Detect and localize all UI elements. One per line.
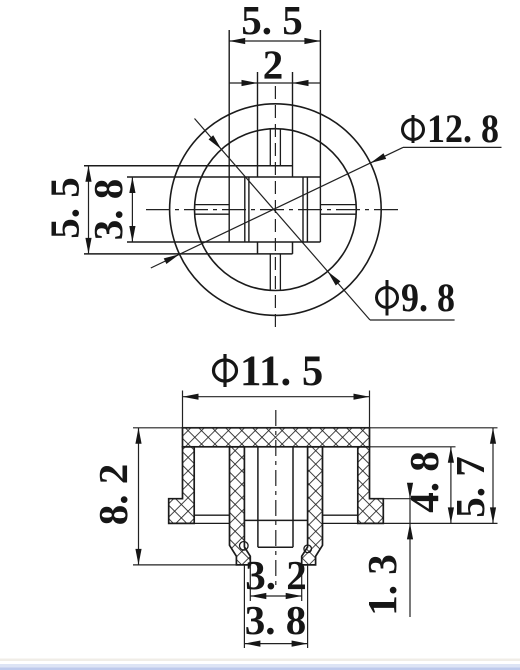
slab hatched [183, 428, 370, 447]
horizontal center line [146, 209, 401, 211]
svg-text:5. 5: 5. 5 [241, 0, 303, 43]
Φ11.5 extension right [369, 391, 371, 428]
cross boss: horizontal bar bottom edge + 3.8 extension [127, 241, 320, 243]
dim 1.3 line [409, 483, 411, 617]
vertical arm right edge / extension for 2 [292, 72, 294, 177]
slot ceiling cap [258, 546, 293, 548]
svg-text:8. 2: 8. 2 [90, 464, 136, 526]
Φ12.8 leader underline [403, 146, 502, 148]
svg-text:9. 8: 9. 8 [401, 276, 455, 320]
dimension 5.5 left line [88, 166, 90, 254]
svg-text:11. 5: 11. 5 [240, 348, 323, 395]
dimension 3.8 left line [131, 177, 133, 242]
svg-text:3. 8: 3. 8 [245, 597, 307, 643]
section center line [275, 410, 277, 585]
dim 5.7 line [492, 428, 494, 524]
inner hole edge 3.2 right [302, 177, 304, 242]
slab top line + 8.2 ext + 5.7 ext [133, 427, 498, 429]
svg-text:5. 5: 5. 5 [42, 177, 88, 239]
svg-text:3. 2: 3. 2 [245, 552, 307, 598]
text Φ11.5 [214, 354, 237, 387]
vertical arm bottom cap + 5.5 extension [84, 253, 293, 255]
svg-text:1. 3: 1. 3 [359, 554, 405, 616]
vertical center line [274, 86, 276, 333]
inner hole edge 3.2 left [248, 177, 250, 242]
lip fillet left [240, 542, 249, 551]
dim 8.2 line [138, 428, 140, 565]
skirt far bottom edge left [194, 514, 229, 516]
8.2 bottom extension + stem bottom [133, 564, 236, 566]
dimension 2 line [229, 82, 320, 84]
dim 3.8 line [244, 643, 307, 645]
vertical arm left edge / extension for 2 [257, 72, 259, 177]
right slot [320, 204, 356, 206]
slot wall right [292, 447, 294, 547]
svg-text:4. 8: 4. 8 [401, 451, 447, 513]
bar right end / extension for 5.5 top [319, 30, 321, 242]
3.8 extension lines [243, 565, 245, 648]
skirt bottom face line right [323, 522, 358, 524]
flange top extension right [383, 498, 413, 500]
Φ12.8 leader diagonal [151, 147, 403, 268]
bottom blue bar [0, 659, 520, 662]
svg-text:2: 2 [263, 42, 284, 88]
right stem wall hatched [302, 447, 323, 565]
hole mid step line [244, 519, 307, 521]
svg-text:3. 8: 3. 8 [85, 179, 131, 241]
left skirt wall + flange hatched [169, 447, 195, 524]
outer circle Φ12.8 [170, 104, 382, 316]
dim 3.2 line [250, 595, 301, 597]
bottom slot [269, 254, 271, 291]
left stem wall hatched [230, 447, 251, 565]
bar left end / extension for 5.5 top [228, 30, 230, 242]
svg-text:12. 8: 12. 8 [427, 107, 499, 151]
dimension 5.5 top line [229, 40, 320, 42]
cross boss: horizontal bar top edge + 3.8 extension [127, 176, 320, 178]
inner circle Φ9.8 [195, 129, 357, 291]
skirt far bottom edge right [323, 514, 358, 516]
Φ11.5 dimension line [183, 396, 370, 398]
Φ11.5 extension left [182, 391, 184, 428]
3.2 extension lines [249, 565, 251, 601]
text Φ9.8 [377, 280, 398, 316]
Φ9.8 leader underline [370, 319, 455, 321]
svg-text:5. 7: 5. 7 [447, 456, 493, 518]
left slot [195, 204, 230, 206]
right skirt wall + flange hatched [358, 447, 384, 524]
slot wall left (2 wide) [257, 447, 259, 547]
inner hole edge 3.8 left [244, 177, 246, 242]
Φ9.8 leader diagonal [195, 119, 371, 321]
top slot [269, 129, 271, 166]
lip fillet right [304, 545, 312, 553]
dim 4.8 line [450, 447, 452, 524]
skirt bottom face line left [194, 522, 229, 524]
inner hole edge 3.8 right [306, 177, 308, 242]
flange bottom extension right [383, 522, 497, 524]
slab bottom + 4.8 extension [370, 446, 456, 448]
text Φ12.8 [403, 115, 424, 143]
vertical arm top cap + 5.5 extension [84, 165, 293, 167]
